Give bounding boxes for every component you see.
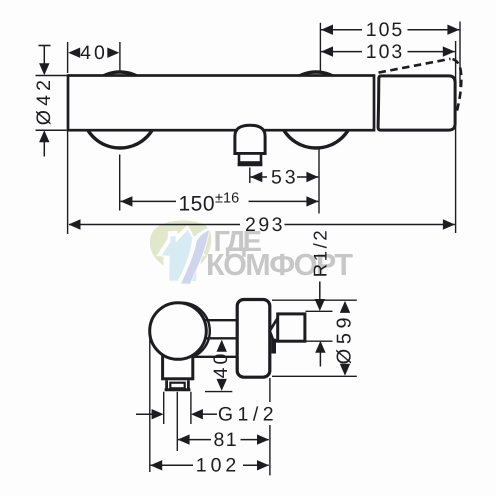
- dim G12 right arrow: [191, 409, 203, 419]
- dim 40 left arrow: [68, 48, 80, 58]
- ext line nut left: [163, 392, 165, 424]
- wall union lower bar: [271, 339, 276, 354]
- dim R12 ext bottom: [306, 340, 333, 342]
- dim 42 top tail: [43, 46, 45, 65]
- dim 81 line left: [178, 439, 211, 441]
- dim 150 line right: [249, 200, 319, 202]
- watermark logo swoosh gap: [176, 227, 210, 284]
- ext line outlet center: [176, 392, 178, 451]
- left escutcheon: [82, 72, 158, 148]
- dim 293 right arrow: [443, 219, 455, 229]
- dim G12 left arrow: [152, 409, 164, 419]
- dim 59 ext top: [272, 299, 357, 301]
- svg-text:R1/2: R1/2: [310, 228, 331, 277]
- svg-text:40: 40: [80, 42, 108, 64]
- dim 102 line right: [243, 464, 269, 466]
- dim 40b top arrow: [217, 340, 227, 352]
- dim 103 line left: [321, 51, 362, 53]
- dim 105 line right: [408, 29, 460, 31]
- dim 81 left arrow: [178, 434, 190, 444]
- dim 105 ext left: [319, 23, 321, 73]
- outlet centerline: [249, 168, 251, 184]
- svg-text:G1/2: G1/2: [218, 404, 278, 426]
- dim 293 left arrow: [69, 219, 81, 229]
- hose nut bottom bar: [165, 388, 191, 391]
- holder arm mid line: [198, 337, 237, 339]
- watermark logo leaf: [150, 221, 211, 276]
- dim 40 ext right: [119, 42, 121, 71]
- dim 105 line left: [321, 29, 362, 31]
- dim 40 ext left: [67, 42, 69, 73]
- handle lever: [378, 76, 455, 130]
- dim 40b bottom arrow: [217, 379, 227, 391]
- shower outlet nut: [239, 154, 261, 163]
- dim 103 ext right long: [455, 41, 457, 233]
- holder arm bottom line: [190, 356, 237, 358]
- hose nut outer right: [187, 380, 190, 389]
- dim 53 left arrow: [250, 172, 262, 182]
- lower housing: [163, 344, 193, 379]
- svg-text:Ø59: Ø59: [334, 313, 356, 365]
- dim 42 ext top: [36, 75, 67, 77]
- hose nut outer left: [165, 380, 168, 389]
- dim 102 left arrow: [150, 460, 162, 470]
- dim 293 line right: [285, 224, 455, 226]
- watermark logo swoosh: [181, 230, 209, 284]
- svg-text:КОМФОРТ: КОМФОРТ: [206, 248, 353, 282]
- dim 102 line left: [151, 464, 193, 466]
- dim 105 ext right: [459, 22, 461, 88]
- dim 40 right arrow: [107, 48, 119, 58]
- dim 293 ext left: [67, 131, 69, 234]
- dim R12 top tail: [319, 282, 321, 302]
- svg-text:53: 53: [271, 166, 299, 188]
- wall nipple box: [278, 314, 305, 341]
- dim 103 line right: [408, 51, 455, 53]
- dim 53 ext right: [318, 148, 320, 214]
- svg-text:40: 40: [210, 351, 232, 379]
- dim 59 ext bottom: [272, 375, 357, 377]
- hose nut inner: [170, 383, 184, 389]
- dim 81 right arrow: [257, 434, 269, 444]
- body ring rear arc: [153, 303, 210, 360]
- shower outlet nut bottom bar: [238, 163, 263, 167]
- wall plate: [237, 300, 270, 378]
- dim 103 right arrow: [443, 46, 455, 56]
- ext line plate right upper: [269, 378, 271, 402]
- ext line nut right: [190, 392, 192, 424]
- dim 42 top arrow: [39, 63, 49, 75]
- dim 81 line right: [241, 439, 269, 441]
- dim 53 line right: [297, 176, 318, 178]
- dim 53 right arrow: [306, 172, 318, 182]
- dim 150 ext left: [119, 155, 121, 211]
- dim R12 ext top: [306, 310, 333, 312]
- dim 150 left arrow: [120, 196, 132, 206]
- dim 53 line left: [250, 176, 267, 178]
- dim 102 right arrow: [257, 460, 269, 470]
- watermark logo house: [162, 230, 201, 281]
- dashed lever raised line: [379, 59, 451, 73]
- svg-text:102: 102: [196, 455, 241, 477]
- wall union corner fill: [270, 332, 273, 340]
- dim 40b ext bottom: [205, 391, 232, 393]
- mixer body bar: [68, 76, 374, 131]
- dim 42 bottom arrow: [39, 130, 49, 142]
- dim 103 left arrow: [321, 46, 333, 56]
- watermark logo house cutout: [156, 225, 206, 285]
- svg-text:103: 103: [366, 41, 405, 63]
- svg-text:105: 105: [366, 19, 405, 41]
- right escutcheon: [278, 72, 354, 148]
- dim 59 bottom arrow: [340, 364, 350, 376]
- dim 293 line left: [69, 224, 240, 226]
- svg-text:Ø42: Ø42: [33, 76, 55, 125]
- dim 105 right arrow: [447, 25, 459, 35]
- dim 150 line left: [120, 200, 176, 202]
- dim G12 left tail: [136, 413, 153, 415]
- dim 42 bottom tail: [43, 141, 45, 156]
- dim 105 left arrow: [321, 25, 333, 35]
- wall union tilted face: [270, 315, 280, 342]
- ext line circle left: [149, 332, 151, 473]
- ext line plate right lower: [269, 425, 271, 475]
- dim R12 bottom arrow: [315, 341, 325, 353]
- svg-text:293: 293: [245, 214, 285, 236]
- dim R12 bottom tail: [319, 352, 321, 367]
- dim R12 top arrow: [315, 299, 325, 311]
- dim 42 serif: [39, 45, 51, 47]
- dim 42 ext bottom: [36, 129, 67, 131]
- shower outlet dome: [235, 125, 265, 153]
- svg-text:81: 81: [213, 429, 238, 451]
- dim G12 right tail: [202, 413, 217, 415]
- dashed lever raised arc: [453, 59, 462, 113]
- dim 150 right arrow: [306, 196, 318, 206]
- body circle: [150, 303, 207, 360]
- holder arm top line: [195, 319, 237, 321]
- dim 59 top arrow: [340, 301, 350, 313]
